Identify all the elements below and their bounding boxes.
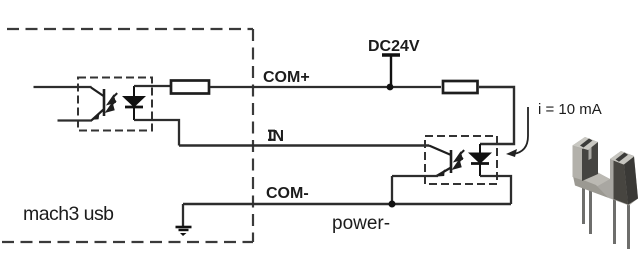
current arrow i (513, 107, 528, 154)
sensor right tower side face (624, 157, 638, 205)
optocoupler U1 dashed box (78, 78, 152, 131)
sensor right tower top slit (616, 153, 629, 162)
wire collector stub left (34, 86, 92, 88)
junction dot COM+/DC24V (387, 84, 394, 91)
ground (176, 227, 192, 236)
sensor left tower window slit (589, 143, 592, 160)
transistor Q2 emitter arrow (437, 169, 445, 176)
wire emitter stub left (58, 119, 93, 121)
DC24V supply bar (382, 55, 400, 87)
svg-text:COM+: COM+ (263, 69, 310, 86)
light arrows U1 (107, 93, 117, 111)
svg-text:DC24V: DC24V (368, 38, 420, 55)
phototransistor Q1 (91, 88, 104, 121)
LED D1 of optocoupler U1 (125, 86, 144, 120)
phototransistor Q2 (429, 146, 451, 177)
resistor R2 (443, 81, 478, 93)
sensor base front face (573, 176, 629, 206)
svg-text:i = 10 mA: i = 10 mA (538, 101, 602, 118)
sensor left tower light strip (573, 146, 583, 181)
transistor Q1 emitter arrow (93, 112, 100, 119)
wire LED D2 cathode to COM- (480, 176, 511, 204)
sensor slot floor highlight (582, 173, 610, 188)
junction dot COM-/emitter (389, 201, 396, 208)
light arrows U2 (454, 150, 464, 168)
sensor left tower top slit (580, 139, 593, 148)
svg-text:power-: power- (332, 213, 390, 234)
optocoupler U2 dashed box (425, 136, 497, 184)
wire COM- (183, 203, 511, 205)
sensor legs (582, 186, 585, 224)
svg-text:mach3 usb: mach3 usb (23, 203, 114, 225)
sensor right tower dark face (614, 161, 629, 205)
sensor left tower top face (573, 137, 599, 150)
sensor left tower dark face (582, 142, 598, 181)
sensor right tower top face (610, 151, 634, 165)
wire IN (179, 144, 429, 146)
mach3 usb board dashed enclosure (2, 29, 253, 242)
sensor body silhouette (573, 137, 639, 206)
wire R2 to LED of U2 (479, 87, 514, 144)
LED D2 of optocoupler U2 (471, 144, 490, 176)
wire emitter to COM- (391, 176, 393, 204)
wire emitter of Q2 (392, 175, 438, 177)
wire COM+ (210, 86, 441, 88)
wire COM- to ground (182, 204, 184, 227)
svg-text:COM-: COM- (266, 185, 309, 202)
wire LED anode to resistor R1 (134, 85, 171, 87)
resistor R1 (171, 81, 209, 94)
wire LED D1 cathode down (134, 120, 179, 146)
photo slotted optical sensor (573, 137, 639, 249)
